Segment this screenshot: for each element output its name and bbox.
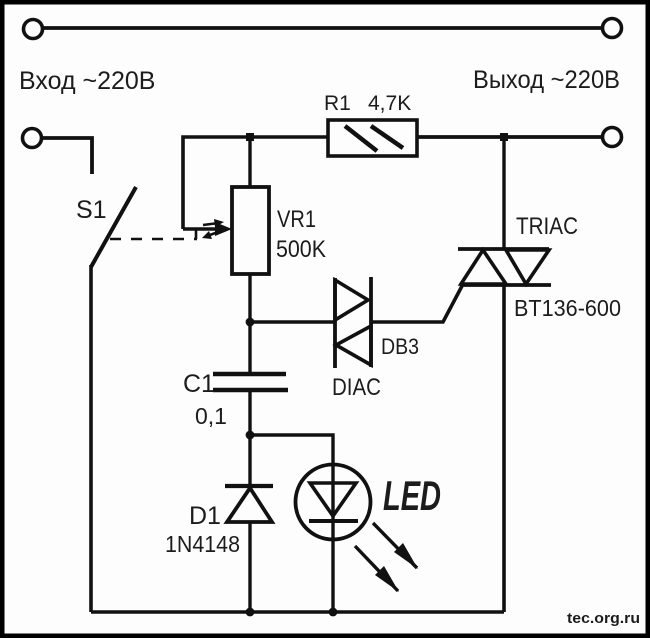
svg-text:S1: S1	[76, 196, 107, 224]
potentiometer VR1	[232, 187, 269, 274]
node junction C1 / D1 / LED	[246, 431, 255, 440]
wire junction to diac	[250, 320, 335, 324]
terminal top-right output	[603, 19, 622, 38]
svg-text:500K: 500K	[276, 236, 326, 263]
terminal top-left input	[24, 20, 43, 39]
terminal mid-right output	[603, 128, 622, 147]
svg-text:BT136-600: BT136-600	[514, 295, 621, 321]
svg-text:4,7K: 4,7K	[368, 92, 411, 115]
node junction D1 / bottom bus	[246, 608, 255, 617]
svg-text:Выход ~220В: Выход ~220В	[473, 66, 620, 94]
wire triac anode down to bottom bus	[502, 285, 506, 612]
svg-text:LED: LED	[383, 472, 441, 519]
svg-text:D1: D1	[189, 502, 221, 530]
wire VR1 bottom down	[248, 274, 251, 374]
diode D1	[225, 486, 273, 522]
wire top bus	[43, 26, 602, 30]
svg-text:TRIAC: TRIAC	[516, 213, 578, 240]
svg-text:DB3: DB3	[381, 334, 419, 359]
switch S1 blade	[91, 187, 136, 267]
wire R1 to output terminal	[417, 135, 602, 139]
capacitor C1	[213, 374, 288, 390]
node junction LED / bottom bus	[329, 608, 338, 617]
wire junction down to VR1 top	[248, 137, 251, 187]
svg-text:DIAC: DIAC	[332, 374, 381, 401]
node junction output bus / triac	[500, 133, 508, 141]
wire mid bus left segment	[183, 137, 327, 229]
terminal mid-left input	[23, 129, 42, 148]
resistor R1	[328, 120, 417, 156]
node junction VR1 / C1 / diac	[246, 318, 255, 327]
wire junction to LED branch	[250, 435, 333, 465]
wire left vertical down from switch	[89, 265, 93, 612]
wire C1 bottom down	[248, 390, 251, 488]
node junction R1-bus / VR1 top	[246, 133, 254, 141]
wire from input terminal to switch top	[42, 138, 92, 174]
LED indicator	[296, 465, 371, 613]
svg-text:0,1: 0,1	[195, 403, 227, 429]
wire triac gate	[372, 286, 462, 322]
LED light arrow 2	[355, 546, 399, 592]
svg-text:Вход ~220В: Вход ~220В	[19, 67, 156, 95]
LED light arrow 1	[373, 523, 418, 569]
svg-text:C1: C1	[183, 370, 215, 398]
wire D1 to bottom bus	[248, 522, 251, 612]
wire dashed mechanical link S1 to VR1	[110, 229, 197, 239]
wire junction down to triac	[502, 137, 505, 250]
wire wiper arm with arrowhead	[183, 219, 232, 239]
svg-text:tec.org.ru: tec.org.ru	[567, 610, 640, 627]
triac U1 BT136-600	[458, 249, 551, 285]
wire bottom bus	[91, 610, 504, 614]
svg-text:1N4148: 1N4148	[165, 531, 240, 557]
svg-text:VR1: VR1	[277, 206, 316, 233]
svg-text:R1: R1	[324, 92, 351, 115]
diac DB3	[335, 277, 371, 368]
